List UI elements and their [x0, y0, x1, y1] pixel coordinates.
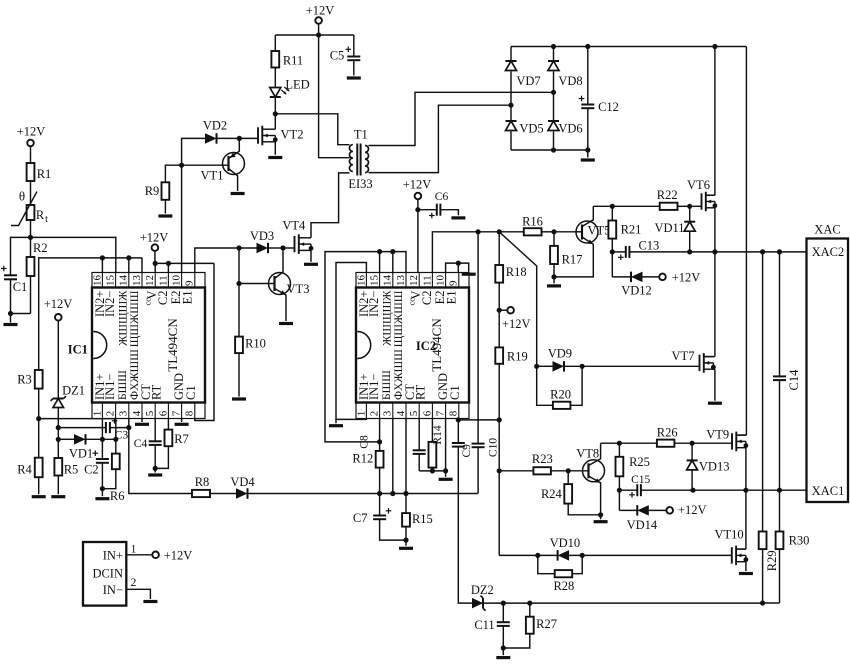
- svg-text:C2: C2: [84, 463, 99, 477]
- svg-text:C2: C2: [420, 291, 434, 306]
- svg-text:VT6: VT6: [687, 178, 710, 192]
- svg-text:E1: E1: [181, 291, 195, 305]
- svg-text:9: 9: [184, 280, 196, 286]
- svg-text:БШШ: БШШ: [381, 370, 393, 400]
- svg-text:C15: C15: [631, 474, 650, 486]
- svg-text:+12V: +12V: [140, 231, 169, 245]
- svg-text:VD12: VD12: [621, 283, 652, 297]
- svg-text:7: 7: [171, 410, 183, 416]
- svg-text:R12: R12: [352, 452, 373, 466]
- svg-text:VD5: VD5: [519, 122, 543, 136]
- svg-text:θ: θ: [19, 189, 25, 204]
- svg-text:VD10: VD10: [550, 536, 581, 550]
- svg-text:VD7: VD7: [516, 74, 540, 88]
- svg-text:4: 4: [395, 410, 407, 416]
- svg-text:10: 10: [171, 275, 183, 287]
- svg-text:VT9: VT9: [706, 428, 729, 442]
- svg-text:IC1: IC1: [68, 343, 88, 357]
- svg-text:5: 5: [144, 410, 156, 416]
- svg-text:R15: R15: [412, 512, 433, 526]
- svg-text:RT: RT: [414, 384, 428, 400]
- svg-text:11: 11: [157, 275, 169, 286]
- svg-text:1: 1: [355, 411, 367, 417]
- svg-text:R2: R2: [33, 241, 48, 255]
- svg-text:C14: C14: [787, 369, 801, 391]
- svg-text:R7: R7: [174, 432, 189, 446]
- svg-text:R26: R26: [657, 426, 678, 440]
- svg-text:R8: R8: [195, 475, 210, 489]
- svg-text:R24: R24: [541, 487, 563, 501]
- svg-text:5: 5: [408, 410, 420, 416]
- svg-text:VD6: VD6: [558, 122, 582, 136]
- svg-text:13: 13: [395, 275, 407, 287]
- svg-text:VT8: VT8: [576, 447, 599, 461]
- svg-text:2: 2: [131, 577, 137, 589]
- svg-text:R20: R20: [550, 387, 571, 401]
- svg-text:VD8: VD8: [558, 74, 582, 88]
- svg-text:15: 15: [105, 275, 117, 287]
- svg-text:C12: C12: [598, 100, 619, 114]
- svg-text:RT: RT: [150, 384, 164, 400]
- svg-text:VD13: VD13: [699, 459, 730, 473]
- svg-text:C4: C4: [134, 438, 148, 450]
- svg-text:LED: LED: [285, 77, 309, 91]
- svg-text:C11: C11: [474, 618, 494, 632]
- svg-text:C13: C13: [638, 239, 659, 253]
- svg-text:VT5: VT5: [588, 224, 611, 238]
- svg-text:R14: R14: [432, 425, 444, 444]
- svg-text:R29: R29: [765, 550, 779, 571]
- svg-text:R11: R11: [283, 53, 303, 67]
- svg-text:10: 10: [435, 275, 447, 287]
- svg-text:VD2: VD2: [203, 118, 227, 132]
- svg-text:C1: C1: [13, 280, 28, 294]
- svg-text:VD9: VD9: [548, 346, 572, 360]
- svg-text:ЖШЩШЖ: ЖШЩШЖ: [117, 290, 129, 346]
- svg-text:IN−: IN−: [103, 583, 123, 597]
- svg-text:13: 13: [131, 275, 143, 287]
- svg-text:R4: R4: [17, 462, 32, 476]
- svg-text:C5: C5: [330, 48, 345, 62]
- svg-text:+12V: +12V: [672, 270, 701, 284]
- svg-text:VD4: VD4: [230, 475, 255, 489]
- svg-text:R17: R17: [562, 252, 583, 266]
- svg-text:IN2−: IN2−: [103, 291, 117, 318]
- svg-text:R6: R6: [110, 489, 125, 503]
- svg-text:R16: R16: [522, 215, 543, 229]
- svg-text:cc: cc: [407, 298, 417, 306]
- svg-text:R1: R1: [37, 167, 52, 181]
- svg-text:R5: R5: [64, 462, 79, 476]
- svg-text:C10: C10: [487, 438, 499, 457]
- svg-text:IN2−: IN2−: [367, 291, 381, 318]
- svg-text:cc: cc: [143, 298, 153, 306]
- svg-text:VD14: VD14: [627, 518, 658, 532]
- svg-text:VT1: VT1: [201, 168, 224, 182]
- svg-text:2: 2: [105, 411, 117, 417]
- svg-text:R: R: [36, 208, 45, 222]
- svg-text:14: 14: [118, 275, 130, 287]
- svg-text:+12V: +12V: [17, 125, 46, 139]
- svg-text:R9: R9: [145, 184, 160, 198]
- svg-text:6: 6: [421, 410, 433, 416]
- svg-text:12: 12: [144, 275, 156, 286]
- svg-text:11: 11: [421, 275, 433, 286]
- svg-text:IC2: IC2: [416, 339, 436, 353]
- svg-text:E1: E1: [445, 291, 459, 305]
- svg-text:1: 1: [91, 411, 103, 417]
- svg-text:DCIN: DCIN: [92, 566, 123, 580]
- svg-text:R22: R22: [657, 188, 678, 202]
- svg-text:БШШ: БШШ: [117, 370, 129, 400]
- svg-text:7: 7: [435, 410, 447, 416]
- svg-text:R30: R30: [789, 533, 810, 547]
- svg-text:ЖШЩШЖ: ЖШЩШЖ: [381, 290, 393, 346]
- svg-text:+12V: +12V: [678, 503, 707, 517]
- svg-text:R21: R21: [621, 223, 642, 237]
- svg-text:VT7: VT7: [672, 349, 695, 363]
- svg-text:R18: R18: [506, 265, 527, 279]
- svg-text:R19: R19: [507, 349, 528, 363]
- svg-text:2: 2: [369, 411, 381, 417]
- svg-text:3: 3: [382, 410, 394, 416]
- svg-text:VT10: VT10: [715, 527, 744, 541]
- svg-text:VD1: VD1: [69, 446, 93, 460]
- svg-text:VD3: VD3: [250, 229, 274, 243]
- svg-text:R23: R23: [532, 452, 553, 466]
- svg-text:C9: C9: [461, 444, 473, 458]
- svg-text:VD11: VD11: [654, 221, 684, 235]
- svg-text:6: 6: [157, 410, 169, 416]
- svg-text:VT2: VT2: [281, 127, 304, 141]
- svg-text:C2: C2: [156, 291, 170, 306]
- svg-text:IN+: IN+: [103, 548, 123, 562]
- svg-text:C8: C8: [359, 435, 371, 449]
- svg-text:XAC: XAC: [814, 223, 840, 237]
- svg-text:ЩШЖШШ: ЩШЖШШ: [393, 290, 405, 347]
- svg-text:+12V: +12V: [306, 3, 335, 17]
- svg-text:DZ1: DZ1: [62, 384, 85, 398]
- svg-text:DZ2: DZ2: [471, 583, 494, 597]
- svg-text:15: 15: [369, 275, 381, 287]
- svg-text:VT4: VT4: [282, 218, 306, 232]
- svg-text:TL494CN: TL494CN: [165, 318, 180, 372]
- svg-text:+12V: +12V: [502, 317, 531, 331]
- svg-text:R3: R3: [17, 372, 32, 386]
- svg-text:16: 16: [91, 275, 103, 287]
- svg-text:R28: R28: [553, 579, 574, 593]
- svg-text:+12V: +12V: [403, 178, 432, 192]
- svg-text:12: 12: [408, 275, 420, 286]
- svg-text:+12V: +12V: [164, 548, 193, 562]
- svg-text:ЩШЖШШ: ЩШЖШШ: [129, 290, 141, 347]
- svg-text:IN1−: IN1−: [367, 374, 381, 401]
- svg-text:C6: C6: [435, 191, 449, 203]
- svg-text:t: t: [45, 214, 48, 225]
- svg-text:VT3: VT3: [287, 282, 310, 296]
- svg-text:XAC2: XAC2: [812, 245, 845, 259]
- svg-text:14: 14: [382, 275, 394, 287]
- svg-text:4: 4: [131, 410, 143, 416]
- svg-text:R10: R10: [245, 336, 266, 350]
- svg-text:16: 16: [355, 275, 367, 287]
- svg-text:+12V: +12V: [44, 297, 73, 311]
- svg-text:C1: C1: [448, 385, 462, 400]
- svg-text:C7: C7: [353, 511, 368, 525]
- svg-text:9: 9: [448, 280, 460, 286]
- svg-text:T1: T1: [354, 128, 368, 142]
- svg-text:R27: R27: [536, 617, 557, 631]
- svg-text:EI33: EI33: [348, 177, 372, 191]
- svg-text:8: 8: [184, 410, 196, 416]
- svg-text:IN1−: IN1−: [103, 374, 117, 401]
- svg-text:1: 1: [131, 544, 137, 556]
- svg-text:R25: R25: [629, 455, 650, 469]
- svg-text:XAC1: XAC1: [812, 484, 845, 498]
- svg-text:8: 8: [448, 410, 460, 416]
- svg-text:C1: C1: [184, 385, 198, 400]
- svg-text:3: 3: [118, 410, 130, 416]
